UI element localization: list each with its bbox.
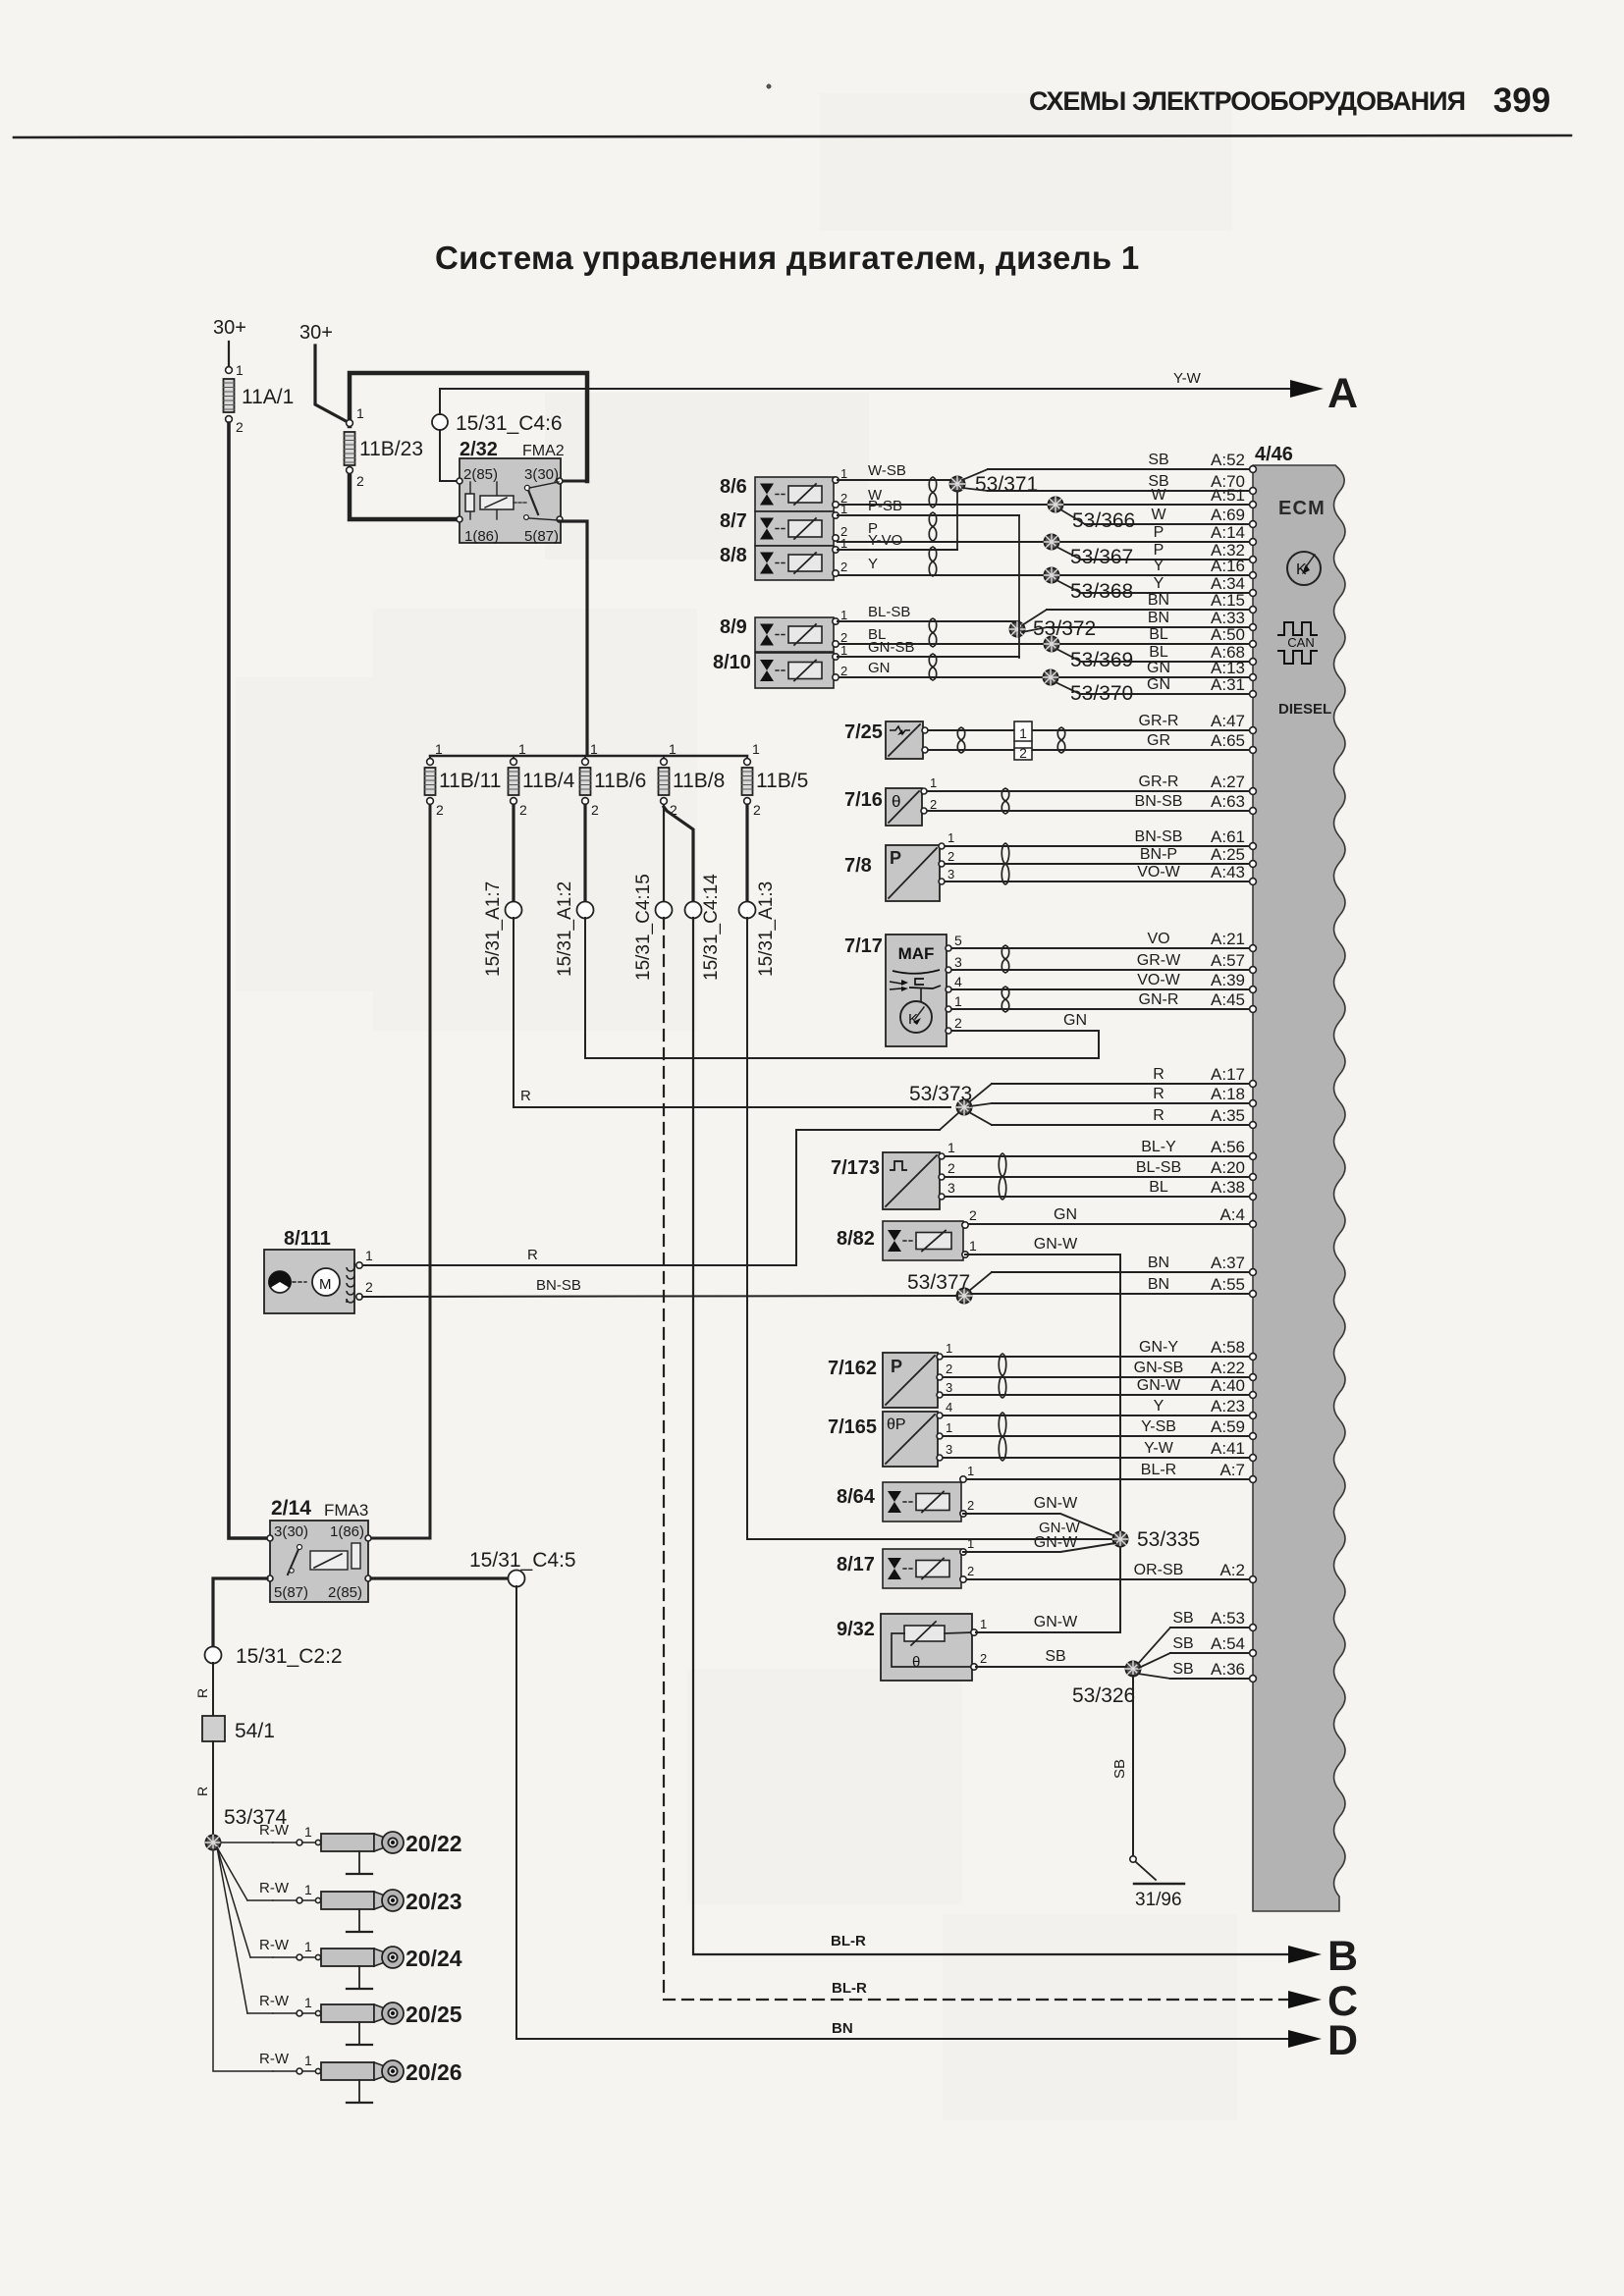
svg-text:BL-R: BL-R — [831, 1933, 866, 1949]
svg-text:15/31_A1:7: 15/31_A1:7 — [483, 881, 504, 977]
fuse 11B/5 — [742, 741, 809, 818]
supply terminal 30+ (left) — [213, 317, 246, 378]
svg-text:1: 1 — [840, 466, 847, 481]
svg-text:1: 1 — [930, 775, 937, 790]
svg-text:1: 1 — [840, 608, 847, 622]
svg-text:8/17: 8/17 — [837, 1554, 875, 1575]
svg-text:BN: BN — [1148, 1276, 1169, 1293]
svg-text:2: 2 — [840, 560, 847, 574]
svg-text:1: 1 — [590, 741, 598, 757]
svg-text:11B/8: 11B/8 — [673, 770, 725, 792]
twisted pair 7/16 — [1001, 788, 1009, 814]
connector 15/31_A1:2 — [555, 881, 594, 977]
wire BN from 15/31_C4:5 to arrow D — [516, 1586, 1288, 2039]
svg-text:θ: θ — [912, 1654, 920, 1671]
wire BN-SB to ECM pin A:63 — [926, 792, 1256, 814]
svg-text:A:69: A:69 — [1211, 506, 1245, 524]
fuse 11B/23 — [345, 405, 424, 489]
page header — [14, 81, 1571, 137]
svg-text:1: 1 — [1019, 725, 1027, 741]
wire GN-W from splice 53/335 to valve 8/17 — [963, 1534, 1115, 1552]
splice 53/377 — [907, 1271, 992, 1304]
wire GN-W to ECM pin A:40 — [942, 1376, 1256, 1398]
svg-text:A:57: A:57 — [1211, 951, 1245, 970]
svg-text:5(87): 5(87) — [524, 528, 559, 545]
wire VO to ECM pin A:21 — [950, 930, 1256, 951]
sensor 7/25 — [844, 721, 928, 759]
svg-text:A:27: A:27 — [1211, 773, 1245, 791]
svg-text:A:53: A:53 — [1211, 1609, 1245, 1628]
valve 8/64 — [837, 1464, 974, 1522]
svg-text:2: 2 — [967, 1498, 974, 1513]
svg-text:A:15: A:15 — [1211, 591, 1245, 610]
svg-text:R: R — [1153, 1066, 1164, 1083]
svg-text:GR-R: GR-R — [1139, 774, 1179, 790]
wire R from 54/1 to splice 53/374 — [194, 1741, 213, 1837]
svg-text:2: 2 — [969, 1207, 977, 1223]
wire P to ECM pin A:32 — [1081, 541, 1256, 562]
twisted pair 7/25 — [957, 727, 965, 753]
wire R to ECM pin A:18 — [992, 1085, 1256, 1106]
wire BL-R dashed from 15/31_C4:15 to arrow C — [664, 918, 1288, 2000]
svg-text:2: 2 — [753, 802, 761, 818]
svg-text:8/8: 8/8 — [720, 545, 747, 566]
svg-text:ECM: ECM — [1278, 498, 1326, 519]
svg-text:FMA3: FMA3 — [324, 1501, 368, 1520]
wire BL to ECM pin A:50 — [838, 625, 1256, 647]
wire P-SB from valve — [838, 498, 1019, 515]
svg-text:W: W — [1151, 487, 1166, 504]
sensor 7/17 (MAF) — [844, 933, 962, 1046]
svg-text:9/32: 9/32 — [837, 1619, 875, 1640]
svg-text:Y: Y — [868, 556, 878, 572]
wire GN-Y to ECM pin A:58 — [942, 1338, 1256, 1360]
splice 53/374 — [206, 1806, 288, 1850]
svg-text:2: 2 — [840, 664, 847, 678]
svg-text:A:7: A:7 — [1219, 1461, 1245, 1479]
wire VO-W to ECM pin A:39 — [950, 971, 1256, 992]
svg-text:53/335: 53/335 — [1137, 1528, 1200, 1551]
connector 15/31_A1:7 — [483, 881, 522, 977]
svg-text:15/31_A1:3: 15/31_A1:3 — [756, 881, 777, 977]
svg-text:A:38: A:38 — [1211, 1178, 1245, 1197]
svg-text:Y: Y — [1154, 575, 1164, 592]
svg-text:VO-W: VO-W — [1137, 864, 1180, 881]
svg-text:4/46: 4/46 — [1255, 444, 1293, 465]
svg-text:SB: SB — [1172, 1661, 1193, 1678]
svg-text:15/31_C4:6: 15/31_C4:6 — [456, 412, 563, 435]
svg-text:3: 3 — [947, 1180, 955, 1196]
svg-text:3: 3 — [947, 867, 954, 881]
svg-text:2: 2 — [980, 1651, 987, 1666]
svg-text:1: 1 — [435, 741, 443, 757]
wire GN-W from 9/32 pin 1 — [976, 1547, 1120, 1632]
svg-text:A:58: A:58 — [1211, 1338, 1245, 1357]
relay 2/14 (FMA3) — [267, 1497, 371, 1602]
ground 31/96 — [1130, 1856, 1184, 1910]
svg-text:GN: GN — [1063, 1012, 1087, 1029]
connector 15/31_C4:15 — [633, 874, 673, 981]
splice 53/369 — [1045, 637, 1134, 672]
splice 53/335 — [1113, 1528, 1201, 1551]
svg-text:11B/6: 11B/6 — [594, 770, 646, 792]
inline connector blocks 1/2 — [1014, 721, 1032, 761]
svg-text:GR-R: GR-R — [1139, 713, 1179, 729]
svg-text:A:2: A:2 — [1219, 1561, 1245, 1579]
wire Y-W to ECM pin A:41 — [942, 1439, 1256, 1461]
svg-text:20/25: 20/25 — [406, 2002, 462, 2027]
svg-text:15/31_C4:15: 15/31_C4:15 — [633, 874, 654, 981]
fuse 11A/1 — [224, 379, 295, 435]
wire SB from splice 53/326 to ground 31/96 — [1111, 1676, 1133, 1855]
svg-text:1: 1 — [946, 1341, 952, 1356]
twisted pairs MAF — [1001, 945, 1009, 1012]
svg-text:53/326: 53/326 — [1072, 1684, 1135, 1707]
svg-text:2: 2 — [946, 1362, 952, 1376]
svg-text:2/14: 2/14 — [271, 1497, 311, 1520]
sensor 7/16 (temperature) — [844, 775, 937, 826]
wire SB to ECM pin A:36 — [1170, 1660, 1256, 1682]
svg-text:54/1: 54/1 — [235, 1720, 275, 1742]
wire BL-SB to ECM pin A:20 — [944, 1158, 1256, 1180]
wire BN to ECM pin A:55 — [970, 1275, 1256, 1297]
injector feed 20/23 — [217, 1847, 462, 1932]
twisted pair after connector blocks — [1057, 727, 1065, 753]
svg-text:A:17: A:17 — [1211, 1065, 1245, 1084]
wire 11B/6 to connector 15/31_A1:2 — [583, 805, 586, 902]
svg-text:BL-R: BL-R — [832, 1980, 867, 1997]
svg-text:P: P — [1154, 524, 1164, 541]
wire R to ECM pin A:17 — [992, 1065, 1256, 1087]
svg-text:GN: GN — [1054, 1206, 1077, 1223]
valve 8/9 — [720, 608, 847, 652]
svg-text:7/16: 7/16 — [844, 789, 883, 811]
svg-text:R: R — [194, 1688, 210, 1698]
arrow B — [1288, 1933, 1358, 1980]
wire SB to ECM pin A:52 — [988, 451, 1256, 472]
wire GN-SB from valve — [838, 639, 1019, 657]
arrow D — [1288, 2017, 1358, 2064]
wire W-SB from valve — [838, 462, 950, 480]
svg-text:7/8: 7/8 — [844, 855, 872, 877]
injector feed 20/24 — [217, 1847, 462, 1989]
svg-text:A:22: A:22 — [1211, 1359, 1245, 1377]
svg-text:SB: SB — [1111, 1759, 1128, 1779]
svg-text:1: 1 — [967, 1464, 974, 1478]
svg-text:2: 2 — [236, 419, 244, 435]
svg-text:A:18: A:18 — [1211, 1085, 1245, 1103]
svg-text:CAN: CAN — [1287, 635, 1314, 650]
svg-text:Y-W: Y-W — [1173, 370, 1202, 387]
svg-text:A:52: A:52 — [1211, 451, 1245, 469]
wire GR-W to ECM pin A:57 — [950, 951, 1256, 973]
svg-text:15/31_A1:2: 15/31_A1:2 — [555, 881, 575, 977]
svg-text:Y-VO: Y-VO — [868, 532, 902, 549]
valve 8/8 — [720, 536, 847, 580]
wire R to ECM pin A:35 — [992, 1106, 1256, 1128]
wire GR to ECM pin A:65 — [924, 731, 1256, 753]
svg-text:θP: θP — [887, 1416, 906, 1433]
ECM control module 4/46 — [1253, 444, 1345, 1911]
scan speck — [767, 84, 771, 88]
wire GN from 15/31_A1:2 to MAF pin 2 — [585, 918, 1099, 1058]
arrow A — [1290, 370, 1358, 417]
svg-text:1: 1 — [304, 1882, 312, 1897]
scan background — [236, 93, 1237, 2120]
injector feed 20/26 — [213, 1849, 462, 2103]
twisted pair 7/165 — [999, 1413, 1006, 1461]
svg-text:R: R — [194, 1787, 210, 1796]
svg-text:1: 1 — [356, 405, 364, 421]
svg-text:GN-W: GN-W — [1137, 1377, 1181, 1394]
svg-text:BL-R: BL-R — [1141, 1462, 1176, 1478]
valve 8/10 — [713, 643, 847, 688]
fuse supply bus — [430, 755, 747, 758]
fuse 11B/11 — [425, 741, 502, 818]
svg-text:A:43: A:43 — [1211, 863, 1245, 881]
svg-text:11A/1: 11A/1 — [242, 386, 294, 408]
supply terminal 30+ (second) — [299, 322, 350, 423]
svg-text:399: 399 — [1493, 81, 1550, 120]
svg-text:8/7: 8/7 — [720, 510, 747, 532]
svg-text:1: 1 — [947, 830, 954, 845]
wire Y-VO from valve — [838, 532, 957, 550]
svg-text:20/22: 20/22 — [406, 1831, 462, 1856]
svg-text:BN-SB: BN-SB — [1135, 828, 1183, 845]
wire BN to ECM pin A:15 — [1047, 591, 1256, 613]
svg-text:1(86): 1(86) — [330, 1523, 364, 1540]
svg-text:A:45: A:45 — [1211, 990, 1245, 1009]
splice 53/371 — [950, 469, 1039, 550]
svg-text:R-W: R-W — [259, 1937, 290, 1953]
splice 53/367 — [1045, 535, 1134, 569]
svg-text:BL: BL — [1149, 1179, 1168, 1196]
wire GN-W from valve 8/82 to vertical — [965, 1236, 1120, 1531]
wire Y to ECM pin A:34 — [1081, 574, 1256, 596]
svg-text:SB: SB — [1172, 1635, 1193, 1652]
svg-text:SB: SB — [1045, 1648, 1065, 1665]
wire GN to ECM pin A:31 — [1080, 675, 1256, 697]
wire BN to ECM pin A:37 — [992, 1254, 1256, 1275]
fuse 11B/8 — [659, 741, 726, 818]
svg-text:A:56: A:56 — [1211, 1138, 1245, 1156]
svg-text:BL-Y: BL-Y — [1141, 1139, 1176, 1155]
svg-text:A:35: A:35 — [1211, 1106, 1245, 1125]
svg-text:20/23: 20/23 — [406, 1889, 462, 1914]
wire BN-P to ECM pin A:25 — [942, 845, 1256, 867]
svg-text:1: 1 — [365, 1248, 373, 1263]
splice 53/370 — [1044, 670, 1134, 706]
svg-text:3: 3 — [954, 954, 962, 970]
svg-text:SB: SB — [1172, 1610, 1193, 1627]
connector 15/31_C4:5 — [469, 1549, 576, 1587]
wire GN from MAF pin 2 — [1063, 1012, 1087, 1029]
svg-text:BL-SB: BL-SB — [1136, 1159, 1181, 1176]
connector 15/31_C2:2 — [205, 1645, 343, 1668]
splice 53/366 — [1049, 498, 1136, 533]
svg-text:1: 1 — [969, 1238, 977, 1254]
wire BL to ECM pin A:68 — [1081, 643, 1256, 665]
sensor 7/8 (pressure) — [844, 830, 954, 901]
wire Y to ECM pin A:23 — [942, 1397, 1256, 1418]
connector 15/31_A1:3 — [739, 881, 778, 977]
wire BL-R to ECM pin A:7 — [963, 1461, 1256, 1482]
fuse 11B/6 — [580, 741, 647, 818]
svg-text:2/32: 2/32 — [460, 439, 498, 460]
svg-text:FMA2: FMA2 — [522, 443, 565, 459]
ECM K-line symbol — [1287, 552, 1321, 585]
svg-text:2: 2 — [947, 1160, 955, 1176]
connector 15/31_C4:6 — [432, 412, 563, 435]
injector feed 20/22 — [221, 1822, 462, 1874]
svg-text:P-SB: P-SB — [868, 498, 902, 514]
svg-text:GN-W: GN-W — [1034, 1236, 1078, 1253]
fuel pump 8/111 — [264, 1228, 373, 1313]
svg-text:1: 1 — [304, 2053, 312, 2068]
svg-text:R-W: R-W — [259, 1880, 290, 1896]
svg-text:2: 2 — [954, 1015, 962, 1031]
svg-text:1: 1 — [840, 502, 847, 516]
svg-text:2: 2 — [356, 473, 364, 489]
wire 11B/4 to connector 15/31_A1:7 — [512, 805, 514, 902]
wire GR-R to ECM pin A:47 — [924, 712, 1256, 733]
wire SB to ECM pin A:53 — [1170, 1609, 1256, 1630]
svg-text:11B/5: 11B/5 — [756, 770, 808, 792]
splice 53/373 — [909, 1083, 992, 1130]
svg-text:1: 1 — [980, 1617, 987, 1631]
svg-text:5(87): 5(87) — [274, 1584, 308, 1601]
svg-text:2: 2 — [365, 1279, 373, 1295]
wire 11B/8 dogleg to connector 15/31_C4:14 — [664, 807, 693, 902]
wire GN from valve — [868, 660, 891, 676]
svg-text:1: 1 — [946, 1420, 952, 1435]
wire 11B/11 to relay 2/14 pin 1(86) — [371, 805, 430, 1538]
svg-text:GN-R: GN-R — [1139, 991, 1179, 1008]
svg-text:A:20: A:20 — [1211, 1158, 1245, 1177]
svg-text:20/24: 20/24 — [406, 1946, 462, 1971]
svg-text:DIESEL: DIESEL — [1278, 701, 1331, 718]
svg-text:11B/4: 11B/4 — [522, 770, 575, 792]
twisted pair 7/8 — [1001, 843, 1009, 884]
svg-text:1: 1 — [840, 643, 847, 658]
wire GR-R to ECM pin A:27 — [926, 773, 1256, 794]
splice 53/372 — [1010, 515, 1097, 658]
svg-text:A:25: A:25 — [1211, 845, 1245, 864]
svg-text:15/31_C4:14: 15/31_C4:14 — [701, 874, 722, 981]
injector feed 20/25 — [217, 1847, 462, 2045]
svg-text:53/367: 53/367 — [1070, 546, 1133, 568]
wire GN to ECM pin A:4 — [965, 1205, 1256, 1227]
svg-text:A:4: A:4 — [1219, 1205, 1245, 1224]
wire GN-R to ECM pin A:45 — [950, 990, 1256, 1012]
sensor 7/173 — [831, 1140, 955, 1209]
fuse 11B/4 — [509, 741, 575, 818]
svg-text:1: 1 — [669, 741, 677, 757]
wire GN to ECM pin A:13 — [838, 659, 1256, 680]
svg-text:W-SB: W-SB — [868, 462, 906, 479]
twisted pair 7/173 — [999, 1153, 1006, 1200]
wire BL-Y to ECM pin A:56 — [944, 1138, 1256, 1159]
wire R to fuse 54/1 — [194, 1663, 213, 1716]
wire BL from valve — [868, 626, 886, 643]
wire W to ECM pin A:69 — [1085, 506, 1256, 527]
svg-text:GN-W: GN-W — [1034, 1534, 1078, 1551]
svg-text:D: D — [1327, 2017, 1358, 2064]
svg-text:2: 2 — [436, 802, 444, 818]
svg-text:A:55: A:55 — [1211, 1275, 1245, 1294]
svg-text:A:40: A:40 — [1211, 1376, 1245, 1395]
svg-text:BN-SB: BN-SB — [1135, 793, 1183, 810]
svg-text:SB: SB — [1148, 452, 1168, 468]
svg-text:BL-SB: BL-SB — [868, 604, 910, 620]
splice 53/368 — [1045, 568, 1134, 604]
svg-text:P: P — [890, 848, 901, 868]
svg-text:2(85): 2(85) — [328, 1584, 362, 1601]
sensor 7/162 (pressure) — [828, 1341, 952, 1408]
wire P to ECM pin A:14 — [838, 523, 1256, 545]
svg-text:BN: BN — [1148, 610, 1169, 626]
svg-text:BN: BN — [832, 2020, 853, 2037]
fuse 54/1 — [202, 1716, 275, 1742]
svg-text:15/31_C2:2: 15/31_C2:2 — [236, 1645, 343, 1668]
svg-text:30+: 30+ — [299, 322, 333, 344]
svg-text:R-W: R-W — [259, 1822, 290, 1839]
svg-text:1: 1 — [840, 536, 847, 551]
svg-text:1: 1 — [304, 1824, 312, 1840]
svg-text:A:21: A:21 — [1211, 930, 1245, 948]
wire W from valve — [868, 487, 883, 504]
svg-text:A:16: A:16 — [1211, 557, 1245, 575]
svg-text:1: 1 — [304, 1939, 312, 1954]
svg-text:2: 2 — [1019, 745, 1027, 761]
connector 15/31_C4:14 — [685, 874, 723, 981]
svg-text:A:51: A:51 — [1211, 486, 1245, 505]
wire relay 2/14 pin 2(85) to connector 15/31_C4:5 — [371, 1576, 509, 1579]
ECM DIESEL label — [1278, 701, 1331, 718]
svg-text:30+: 30+ — [213, 317, 246, 339]
svg-text:GR: GR — [1147, 732, 1170, 749]
svg-text:8/82: 8/82 — [837, 1228, 875, 1250]
svg-text:3(30): 3(30) — [524, 466, 559, 483]
svg-text:7/162: 7/162 — [828, 1358, 877, 1379]
svg-text:K: K — [908, 1011, 918, 1028]
svg-text:BN: BN — [1148, 592, 1169, 609]
svg-text:A: A — [1327, 370, 1358, 417]
wire relay 2/32 pin 5(87) to fuse bus — [560, 521, 587, 755]
svg-text:OR-SB: OR-SB — [1134, 1562, 1184, 1578]
thick feed box around relay 2/32 — [350, 373, 587, 519]
svg-text:7/25: 7/25 — [844, 721, 883, 743]
wire GN-W from 15/31_A1:3 to splice 53/335 — [747, 918, 1112, 1539]
svg-text:M: M — [319, 1276, 332, 1293]
svg-text:BL: BL — [1149, 626, 1168, 643]
wire Y-SB to ECM pin A:59 — [942, 1417, 1256, 1439]
svg-text:GN-Y: GN-Y — [1139, 1339, 1178, 1356]
diagram title — [435, 240, 1140, 276]
svg-text:GN: GN — [868, 660, 891, 676]
svg-text:A:36: A:36 — [1211, 1660, 1245, 1679]
svg-text:A:63: A:63 — [1211, 792, 1245, 811]
wire BL to ECM pin A:38 — [944, 1178, 1256, 1200]
svg-text:VO: VO — [1147, 931, 1169, 947]
svg-text:BL: BL — [1149, 644, 1168, 661]
arrow C — [1288, 1978, 1358, 2025]
svg-text:MAF: MAF — [898, 944, 935, 963]
svg-text:20/26: 20/26 — [406, 2059, 462, 2085]
valve 8/7 — [720, 502, 847, 546]
wire SB to ECM pin A:70 — [988, 472, 1256, 494]
wire relay 2/14 pin 5(87) to connector 15/31_C2:2 — [213, 1578, 267, 1647]
